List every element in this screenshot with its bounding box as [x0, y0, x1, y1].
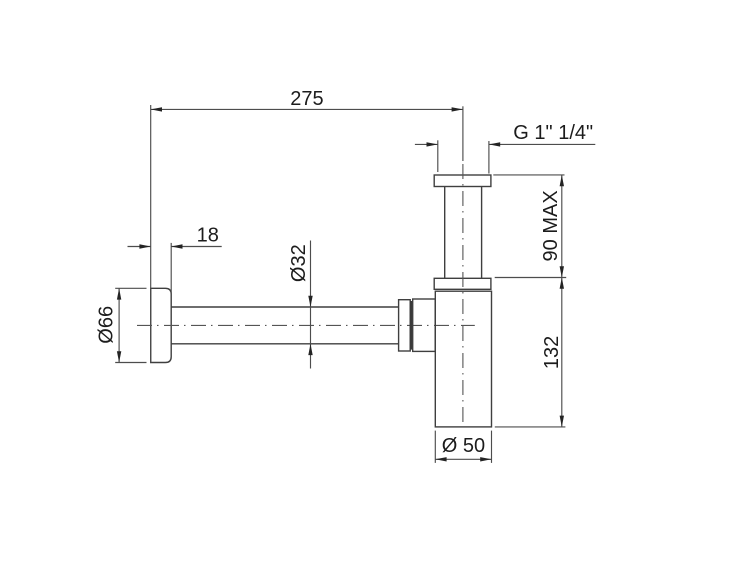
dim 18 extension line [170, 243, 172, 294]
dim 32 arrows [308, 296, 312, 355]
dim G thread line [415, 143, 595, 145]
dim 32 line [310, 241, 312, 369]
dim 50 extension lines [435, 431, 491, 463]
inlet sleeve [413, 299, 436, 351]
svg-text:Ø32: Ø32 [288, 244, 310, 282]
inlet nut [399, 300, 411, 351]
label diameter 66 [96, 306, 118, 344]
label 90 MAX [540, 190, 562, 261]
wall flange [151, 288, 172, 362]
dim 66 extension lines [115, 288, 146, 362]
dim G thread arrows [427, 142, 501, 146]
dim 275 line [151, 108, 463, 110]
nut face band [410, 301, 413, 350]
shared extension line mid [495, 277, 567, 279]
tailpipe top flange [434, 175, 491, 187]
dim 50 arrows [435, 457, 491, 461]
dim 275 arrows [151, 107, 463, 111]
dim 90 extension line top [493, 174, 564, 176]
svg-text:Ø 50: Ø 50 [442, 435, 485, 457]
dim 132 arrows [560, 278, 564, 427]
dim 18 line [128, 246, 222, 248]
tailpipe bottom flange [434, 278, 491, 289]
svg-text:275: 275 [290, 88, 323, 110]
dim G thread extension lines [438, 140, 489, 173]
dim 90 arrows [560, 175, 564, 278]
label diameter 50 [442, 435, 485, 457]
label diameter 32 [288, 244, 310, 282]
dim 66 arrows [117, 288, 121, 362]
dim 50 line [435, 458, 491, 460]
horizontal inlet pipe [171, 307, 398, 344]
label 132 [541, 336, 563, 369]
bottle body [435, 291, 491, 427]
svg-text:90 MAX: 90 MAX [540, 190, 562, 261]
dim 132 extension line bottom [495, 426, 566, 428]
vertical tailpipe [445, 187, 482, 279]
dim 132 line [561, 278, 563, 427]
dim 90 line [561, 175, 563, 278]
pipe centerline horizontal [137, 324, 475, 326]
dim 275 extension line right [462, 106, 464, 161]
svg-text:132: 132 [541, 336, 563, 369]
label 18 [197, 225, 219, 247]
svg-text:18: 18 [197, 225, 219, 247]
bottle centerline vertical [462, 164, 464, 427]
dim 18 arrows [139, 244, 182, 248]
label 275 [290, 88, 323, 110]
wall flange left edge / extension line [150, 105, 152, 363]
dim 66 line [118, 288, 120, 362]
svg-text:G 1" 1/4": G 1" 1/4" [513, 122, 593, 144]
label G 1" 1/4" [513, 122, 593, 144]
svg-text:Ø66: Ø66 [96, 306, 118, 344]
